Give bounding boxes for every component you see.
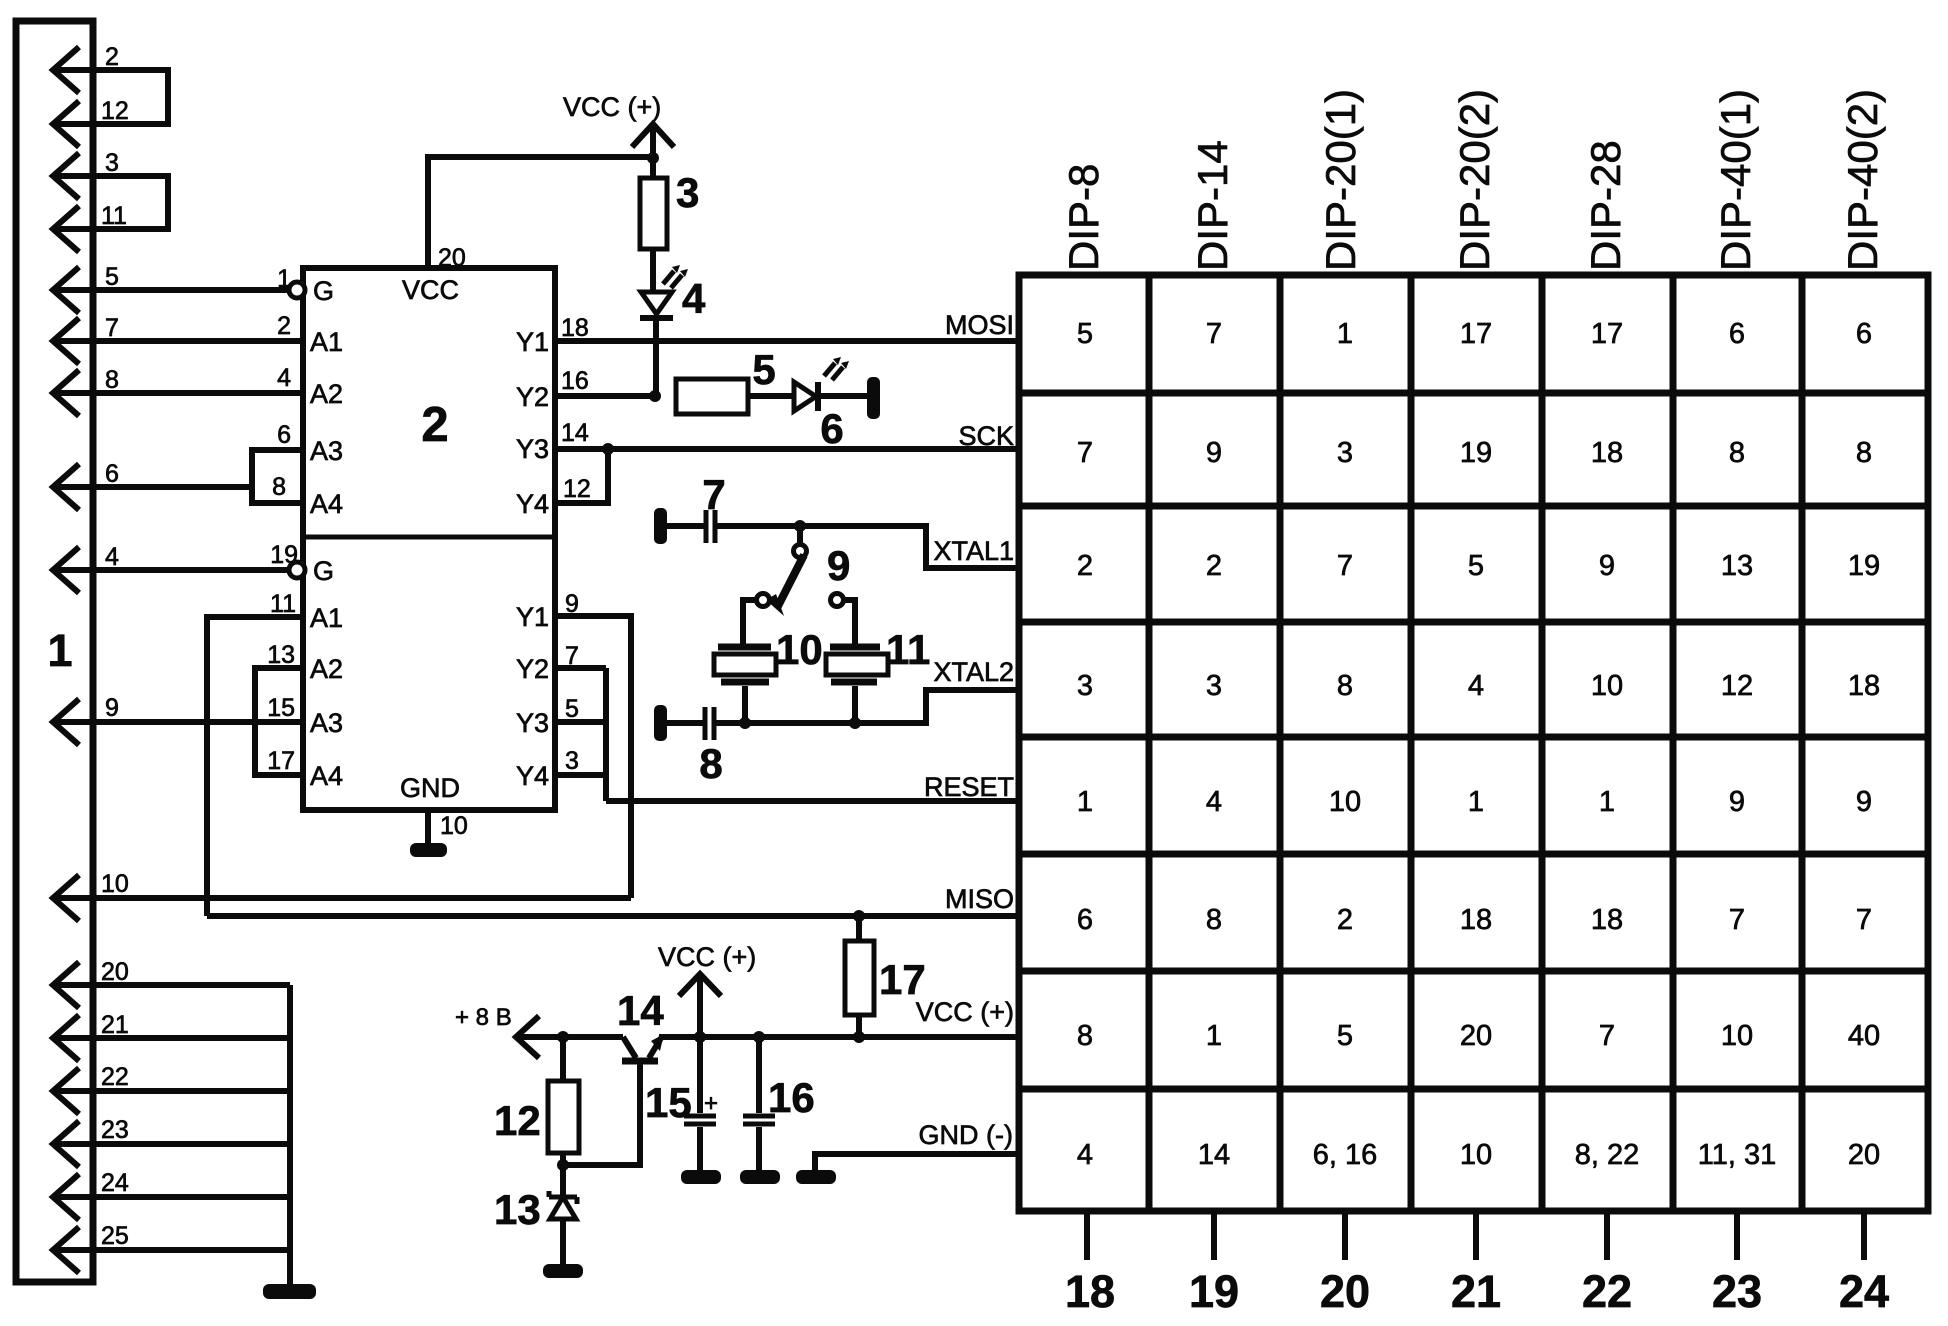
svg-text:5: 5 xyxy=(1337,1020,1353,1052)
junction LED4/Y2 xyxy=(649,390,661,402)
LED VD6 xyxy=(794,382,816,411)
wire R3 to LED4 xyxy=(650,158,656,292)
pin 20 VCC stub xyxy=(428,157,653,268)
arrow pin 22 xyxy=(53,1068,79,1114)
row GND cells xyxy=(1077,1139,1880,1171)
zener VD13 xyxy=(550,1197,576,1219)
arrow pin 20 xyxy=(53,962,79,1008)
wire pin 24 xyxy=(53,1194,290,1200)
svg-text:24: 24 xyxy=(1839,1266,1889,1317)
svg-text:14: 14 xyxy=(617,987,664,1034)
terminal C8 xyxy=(654,705,667,741)
wire pin 7 to A1 xyxy=(53,338,303,344)
row RESET cells xyxy=(1077,786,1872,818)
row SCK cells xyxy=(1077,437,1872,469)
wire +8V to VT14 xyxy=(517,1034,623,1040)
svg-text:19: 19 xyxy=(1189,1266,1239,1317)
wire pin 23 xyxy=(53,1141,290,1147)
svg-text:18: 18 xyxy=(1591,904,1623,936)
svg-text:10: 10 xyxy=(1329,786,1361,818)
junction C16 xyxy=(753,1031,765,1043)
wire GND line xyxy=(815,1154,1019,1172)
svg-text:8: 8 xyxy=(699,740,722,787)
wire jumper pins 2-12 xyxy=(53,70,168,124)
wire jumper A3-A4 xyxy=(252,450,303,503)
svg-text:20: 20 xyxy=(438,244,466,272)
junction R17 bottom xyxy=(853,1031,865,1043)
svg-text:25: 25 xyxy=(101,1222,129,1250)
arrow pin 2 xyxy=(53,47,79,93)
svg-text:4: 4 xyxy=(277,364,291,392)
svg-text:11, 31: 11, 31 xyxy=(1698,1139,1776,1171)
svg-text:13: 13 xyxy=(267,641,295,669)
resistor R5 xyxy=(676,379,748,414)
wire jumper A2-A3-A4 bottom xyxy=(255,668,303,775)
svg-text:15: 15 xyxy=(645,1079,692,1126)
svg-text:16: 16 xyxy=(561,367,589,395)
svg-text:9: 9 xyxy=(1206,437,1222,469)
svg-text:1: 1 xyxy=(47,625,72,676)
svg-text:10: 10 xyxy=(1591,670,1623,702)
wire C7 to XTAL1 xyxy=(717,526,1019,568)
wire ZQ10 to C8 line xyxy=(742,686,748,723)
svg-text:22: 22 xyxy=(1582,1266,1632,1317)
wire Y1 bottom to pin10 xyxy=(555,616,631,898)
wire C8 to XTAL2 xyxy=(716,690,1019,723)
svg-text:2: 2 xyxy=(1206,550,1222,582)
arrow pin 5 xyxy=(53,267,79,313)
svg-text:6: 6 xyxy=(277,421,291,449)
resistor R17 xyxy=(845,941,874,1015)
arrow pin 7 xyxy=(53,318,79,364)
svg-text:5: 5 xyxy=(1077,318,1093,350)
capacitor C15 xyxy=(697,1037,703,1113)
svg-text:12: 12 xyxy=(1721,670,1753,702)
svg-text:18: 18 xyxy=(1591,437,1623,469)
svg-text:2: 2 xyxy=(1077,550,1093,582)
svg-text:15: 15 xyxy=(267,694,295,722)
wire A1 bottom to MISO xyxy=(207,617,303,916)
svg-text:DIP-14: DIP-14 xyxy=(1189,140,1236,271)
svg-text:8: 8 xyxy=(1729,437,1745,469)
svg-text:3: 3 xyxy=(1337,437,1353,469)
svg-text:7: 7 xyxy=(1337,550,1353,582)
svg-text:A4: A4 xyxy=(310,489,343,519)
transistor VT14 xyxy=(623,1037,636,1058)
svg-text:9: 9 xyxy=(1599,550,1615,582)
svg-text:20: 20 xyxy=(101,958,129,986)
lead DIP-8 xyxy=(1084,1212,1090,1260)
lead DIP-14 xyxy=(1211,1212,1217,1260)
svg-text:13: 13 xyxy=(1721,550,1753,582)
svg-text:DIP-28: DIP-28 xyxy=(1582,140,1629,271)
svg-text:10: 10 xyxy=(101,870,129,898)
svg-text:VCC (+): VCC (+) xyxy=(916,997,1014,1027)
svg-text:VCC (+): VCC (+) xyxy=(658,942,756,972)
svg-text:+: + xyxy=(704,1090,718,1117)
connector XP1 body xyxy=(16,21,93,1282)
svg-text:13: 13 xyxy=(494,1186,541,1233)
wire Y2 stub xyxy=(555,393,654,399)
arrow pin 10 xyxy=(53,875,79,921)
svg-text:7: 7 xyxy=(702,471,725,518)
ground C15 xyxy=(681,1170,721,1184)
capacitor C8 xyxy=(705,707,714,740)
svg-text:17: 17 xyxy=(1591,318,1623,350)
junction ZQ11 xyxy=(849,717,861,729)
arrow +8V xyxy=(516,1016,539,1058)
wire ground bus pins 20-25 xyxy=(287,985,293,1286)
svg-text:A1: A1 xyxy=(310,603,343,633)
svg-text:4: 4 xyxy=(682,275,706,322)
row MISO cells xyxy=(1077,904,1872,936)
svg-text:5: 5 xyxy=(1468,550,1484,582)
arrow pin 8 xyxy=(53,370,79,416)
svg-text:19: 19 xyxy=(1848,550,1880,582)
svg-text:9: 9 xyxy=(1856,786,1872,818)
arrow pin 4 xyxy=(53,547,79,593)
svg-text:GND: GND xyxy=(400,773,460,803)
wire pin 4 to G2 xyxy=(53,567,290,573)
VCC symbol top xyxy=(632,124,674,158)
G2 inverting bubble xyxy=(289,562,305,578)
svg-text:9: 9 xyxy=(105,694,119,722)
svg-text:RESET: RESET xyxy=(924,772,1014,802)
svg-text:A2: A2 xyxy=(310,379,343,409)
svg-text:1: 1 xyxy=(1077,786,1093,818)
wire MISO line xyxy=(207,913,1019,919)
buffer IC U2 body xyxy=(303,268,555,810)
svg-text:21: 21 xyxy=(1451,1266,1501,1317)
svg-text:G: G xyxy=(313,276,334,306)
svg-text:19: 19 xyxy=(1460,437,1492,469)
pin 10 GND stub xyxy=(425,810,431,845)
table outer border xyxy=(1019,275,1928,1211)
svg-text:1: 1 xyxy=(1468,786,1484,818)
svg-text:18: 18 xyxy=(561,314,589,342)
svg-text:DIP-20(2): DIP-20(2) xyxy=(1451,89,1498,271)
svg-text:VCC: VCC xyxy=(402,275,459,305)
wire LED4 to Y2 line xyxy=(653,318,659,396)
row VCC cells xyxy=(1077,1020,1880,1052)
svg-text:Y2: Y2 xyxy=(516,382,549,412)
svg-text:17: 17 xyxy=(1460,318,1492,350)
ground IC pin 10 xyxy=(410,843,447,857)
svg-text:7: 7 xyxy=(1077,437,1093,469)
ground C16 xyxy=(740,1170,780,1184)
wire LED6 to terminal xyxy=(818,393,869,399)
LED VD4 xyxy=(641,292,672,314)
svg-text:XTAL1: XTAL1 xyxy=(933,536,1014,566)
svg-text:4: 4 xyxy=(105,543,119,571)
wire pin 5 to G1 xyxy=(53,287,290,293)
svg-text:5: 5 xyxy=(565,695,579,723)
wire pin 21 xyxy=(53,1035,290,1041)
svg-text:4: 4 xyxy=(1206,786,1222,818)
svg-text:7: 7 xyxy=(1729,904,1745,936)
svg-text:2: 2 xyxy=(1337,904,1353,936)
svg-text:10: 10 xyxy=(776,626,823,673)
svg-text:Y1: Y1 xyxy=(516,327,549,357)
svg-text:2: 2 xyxy=(105,43,119,71)
table row lines xyxy=(1019,393,1928,1089)
svg-text:8: 8 xyxy=(105,366,119,394)
svg-text:MOSI: MOSI xyxy=(945,310,1014,340)
svg-text:A2: A2 xyxy=(310,654,343,684)
switch SA9 xyxy=(797,526,803,545)
junction Y3/Y4 xyxy=(602,443,614,455)
IC section divider xyxy=(303,535,555,540)
svg-text:22: 22 xyxy=(101,1063,129,1091)
wire jumper pins 3-11 xyxy=(53,176,168,229)
svg-text:17: 17 xyxy=(267,747,295,775)
svg-text:20: 20 xyxy=(1460,1020,1492,1052)
svg-text:6: 6 xyxy=(820,405,843,452)
svg-text:Y3: Y3 xyxy=(516,434,549,464)
svg-text:7: 7 xyxy=(105,314,119,342)
lead DIP-40(1) xyxy=(1734,1212,1740,1260)
junction C15 xyxy=(694,1031,706,1043)
resistor R12 xyxy=(548,1081,579,1153)
svg-text:18: 18 xyxy=(1065,1266,1115,1317)
svg-text:8, 22: 8, 22 xyxy=(1575,1139,1640,1171)
svg-text:4: 4 xyxy=(1468,670,1484,702)
svg-text:11: 11 xyxy=(270,590,296,618)
svg-text:14: 14 xyxy=(1198,1139,1230,1171)
svg-text:DIP-20(1): DIP-20(1) xyxy=(1317,89,1364,271)
lead DIP-20(1) xyxy=(1342,1212,1348,1260)
svg-text:3: 3 xyxy=(1077,670,1093,702)
svg-text:23: 23 xyxy=(101,1116,129,1144)
wire pin 9 to A3 xyxy=(53,719,303,725)
svg-text:Y2: Y2 xyxy=(516,654,549,684)
svg-text:G: G xyxy=(313,556,334,586)
junction ZQ10 xyxy=(739,717,751,729)
crystal ZQ10 xyxy=(718,647,771,682)
junction R12 bottom xyxy=(557,1159,569,1171)
svg-text:Y4: Y4 xyxy=(516,489,549,519)
row XTAL1 cells xyxy=(1077,550,1880,582)
wire ZQ11 to C8 line xyxy=(852,686,858,723)
svg-text:6: 6 xyxy=(1729,318,1745,350)
svg-text:A3: A3 xyxy=(310,436,343,466)
svg-text:7: 7 xyxy=(1856,904,1872,936)
row XTAL2 cells xyxy=(1077,670,1880,702)
arrow pin 9 xyxy=(53,699,79,745)
crystal ZQ11 xyxy=(830,647,880,682)
svg-text:A3: A3 xyxy=(310,708,343,738)
wire pin 8 to A2 xyxy=(53,390,303,396)
svg-text:8: 8 xyxy=(1337,670,1353,702)
svg-text:7: 7 xyxy=(1599,1020,1615,1052)
svg-text:20: 20 xyxy=(1320,1266,1370,1317)
svg-text:1: 1 xyxy=(1337,318,1353,350)
svg-text:MISO: MISO xyxy=(945,884,1014,914)
svg-text:1: 1 xyxy=(1599,786,1615,818)
wire Y4 jumper to SCK xyxy=(555,449,608,503)
svg-text:DIP-8: DIP-8 xyxy=(1060,164,1107,271)
svg-text:2: 2 xyxy=(421,398,448,452)
wire R5 to LED6 xyxy=(748,393,794,399)
ground bus symbol xyxy=(263,1284,316,1299)
terminal LED6 xyxy=(867,377,880,419)
svg-text:GND (-): GND (-) xyxy=(919,1120,1013,1150)
svg-text:+ 8 B: + 8 B xyxy=(455,1004,512,1031)
wire MOSI line xyxy=(555,338,1019,344)
junction switch top xyxy=(794,520,806,532)
resistor R3 xyxy=(640,178,667,249)
svg-text:14: 14 xyxy=(561,419,589,447)
wire pin 22 xyxy=(53,1088,290,1094)
svg-text:A1: A1 xyxy=(310,327,343,357)
svg-text:12: 12 xyxy=(101,97,129,125)
svg-text:11: 11 xyxy=(101,202,127,230)
ground GND line xyxy=(796,1170,836,1184)
svg-text:10: 10 xyxy=(1721,1020,1753,1052)
svg-text:Y3: Y3 xyxy=(516,708,549,738)
wire pin 25 xyxy=(53,1247,290,1253)
svg-text:XTAL2: XTAL2 xyxy=(933,657,1014,687)
lead DIP-40(2) xyxy=(1861,1212,1867,1260)
svg-text:3: 3 xyxy=(676,169,699,216)
lead DIP-20(2) xyxy=(1473,1212,1479,1260)
wire RESET line xyxy=(606,798,1019,804)
wire switch left to ZQ10 xyxy=(743,600,757,644)
arrow pin 3 xyxy=(53,153,79,199)
arrow pin 23 xyxy=(53,1121,79,1167)
ground VD13 xyxy=(543,1264,583,1278)
lead DIP-28 xyxy=(1604,1212,1610,1260)
svg-text:6: 6 xyxy=(105,460,119,488)
arrow pin 12 xyxy=(53,101,79,147)
svg-text:8: 8 xyxy=(1856,437,1872,469)
svg-text:VCC (+): VCC (+) xyxy=(563,92,661,122)
svg-text:11: 11 xyxy=(886,626,930,673)
capacitor C16 xyxy=(756,1037,762,1113)
svg-text:2: 2 xyxy=(277,312,291,340)
svg-text:8: 8 xyxy=(1206,904,1222,936)
svg-text:9: 9 xyxy=(1729,786,1745,818)
svg-text:1: 1 xyxy=(277,265,291,293)
svg-text:23: 23 xyxy=(1712,1266,1762,1317)
VCC symbol mid xyxy=(679,974,721,1037)
svg-text:1: 1 xyxy=(1206,1020,1222,1052)
arrow pin 6 xyxy=(53,464,79,510)
svg-text:DIP-40(2): DIP-40(2) xyxy=(1839,89,1886,271)
svg-text:3: 3 xyxy=(105,149,119,177)
svg-text:DIP-40(1): DIP-40(1) xyxy=(1712,89,1759,271)
svg-text:5: 5 xyxy=(105,263,119,291)
svg-text:18: 18 xyxy=(1848,670,1880,702)
svg-text:6: 6 xyxy=(1856,318,1872,350)
svg-text:5: 5 xyxy=(752,346,775,393)
junction VCC/R3 xyxy=(647,152,659,164)
arrow pin 21 xyxy=(53,1015,79,1061)
capacitor C7 xyxy=(706,510,715,543)
svg-text:Y4: Y4 xyxy=(516,761,549,791)
arrow pin 11 xyxy=(53,206,79,252)
svg-text:3: 3 xyxy=(565,747,579,775)
svg-text:12: 12 xyxy=(494,1097,541,1144)
svg-text:Y1: Y1 xyxy=(516,602,549,632)
svg-text:18: 18 xyxy=(1460,904,1492,936)
svg-text:7: 7 xyxy=(1206,318,1222,350)
svg-text:40: 40 xyxy=(1848,1020,1880,1052)
svg-text:12: 12 xyxy=(563,475,591,503)
svg-text:SCK: SCK xyxy=(958,421,1014,451)
table column lines xyxy=(1149,275,1802,1211)
terminal C7 xyxy=(654,508,667,544)
svg-text:9: 9 xyxy=(827,542,850,589)
svg-text:10: 10 xyxy=(440,812,468,840)
wire SCK line xyxy=(555,446,1019,452)
svg-text:21: 21 xyxy=(101,1011,129,1039)
svg-text:8: 8 xyxy=(1077,1020,1093,1052)
svg-text:10: 10 xyxy=(1460,1139,1492,1171)
wire VT14 emitter to VCC rail xyxy=(659,1034,1019,1040)
svg-text:A4: A4 xyxy=(310,761,343,791)
wire switch right to ZQ11 xyxy=(843,600,855,644)
junction R17 top xyxy=(853,910,865,922)
svg-text:8: 8 xyxy=(272,473,286,501)
svg-text:4: 4 xyxy=(1077,1139,1093,1171)
junction R12 top xyxy=(557,1031,569,1043)
svg-text:17: 17 xyxy=(879,956,926,1003)
svg-text:6: 6 xyxy=(1077,904,1093,936)
wire pin 20 xyxy=(53,982,290,988)
row MOSI cells xyxy=(1077,318,1872,350)
svg-text:24: 24 xyxy=(101,1169,129,1197)
svg-text:20: 20 xyxy=(1848,1139,1880,1171)
svg-text:3: 3 xyxy=(1206,670,1222,702)
arrow pin 25 xyxy=(53,1227,79,1273)
wire pin 10 to Y1 drop xyxy=(53,895,631,901)
wire jumper Y2-Y3-Y4 to RESET xyxy=(555,668,606,801)
G1 inverting bubble xyxy=(289,282,305,298)
arrow pin 24 xyxy=(53,1174,79,1220)
wire pin 6 to A3/A4 jumper xyxy=(53,484,252,490)
svg-text:16: 16 xyxy=(768,1074,815,1121)
svg-text:19: 19 xyxy=(270,541,298,569)
svg-text:6, 16: 6, 16 xyxy=(1313,1139,1378,1171)
